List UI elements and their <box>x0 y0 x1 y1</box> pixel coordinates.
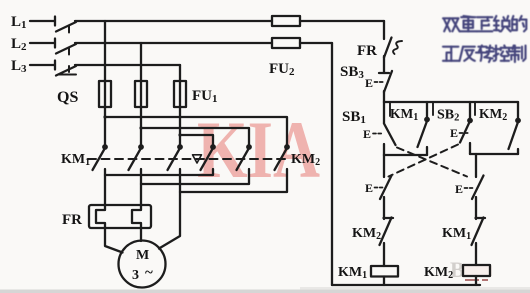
interlock dashed link SB1 to SB1-NC <box>397 148 467 177</box>
contactor KM2 aux NO self-hold contact <box>509 102 521 154</box>
contactor KM1 aux NO self-hold contact <box>418 102 430 155</box>
wire L3 to phase3 drop <box>75 64 180 66</box>
wire FR to SB3 <box>383 56 385 73</box>
wire L2 to FU2b <box>75 42 272 44</box>
wire KM1 coil to bottom bus <box>383 277 385 286</box>
node L1 <box>30 17 55 26</box>
wire branch1 bar to SB2 NC <box>383 155 385 177</box>
wire L2 blade (QS pole 2) <box>56 44 76 54</box>
wire KM2 pole3 bottom to phase3 <box>180 169 287 192</box>
wire FR heater2 to motor V <box>140 228 142 241</box>
wire KM1NC to KM2 coil <box>475 243 477 265</box>
fuse FU2b <box>272 38 300 48</box>
FR heater element 2 <box>132 205 141 228</box>
svg-text:QS: QS <box>57 89 78 106</box>
contactor KM1 main contact pole3 <box>168 144 183 170</box>
svg-text:E: E <box>455 182 463 196</box>
disconnector QS linkage <box>59 26 77 75</box>
svg-text:3: 3 <box>132 268 139 283</box>
fuse FU1c <box>174 81 186 107</box>
wire KM2 coil to bottom bus <box>475 276 477 285</box>
button SB1 NC interlock contact (branch2) <box>465 176 484 200</box>
contactor KM2 NC interlock contact (branch1) <box>380 218 394 246</box>
button SB2 NC interlock contact (branch1) <box>375 176 392 200</box>
photo bottom edge shading <box>0 290 530 293</box>
wire phase3 FU1c to KM1 contact <box>179 107 181 145</box>
bus tick separators <box>390 102 475 116</box>
FR heater element 1 <box>96 205 105 228</box>
coil KM1 <box>371 266 398 277</box>
wire phase1 to FR heater1 <box>104 169 106 205</box>
contactor KM1 NC interlock contact (branch2) <box>472 218 486 246</box>
wire phase1 FU1a to KM1 contact <box>104 107 106 145</box>
svg-text:E: E <box>365 181 373 195</box>
fuse FU2a <box>272 16 300 26</box>
wire phase3 to motor W <box>159 169 180 249</box>
svg-text:E: E <box>363 127 371 141</box>
fuse FU1b <box>135 81 147 107</box>
wire branch2 to KM1 NC <box>475 197 477 219</box>
wire L2 feed to KM2 pole2 <box>141 128 249 145</box>
wire L1 to FU2a <box>75 20 272 22</box>
wire L3 blade (QS pole 3) <box>56 66 76 76</box>
svg-text:~: ~ <box>145 265 153 281</box>
wire phase2 to FR heater2 <box>140 169 142 205</box>
caption line2 正反转控制 <box>443 47 460 61</box>
wire KM2NC to KM1 coil <box>383 243 385 266</box>
wire SB2/KM2aux parallel bar <box>470 153 518 155</box>
svg-text:E: E <box>365 76 373 90</box>
node L3 <box>30 61 55 70</box>
wire SB1/KM1aux parallel bar <box>384 154 427 156</box>
control top bus <box>384 101 518 103</box>
wire phase3 drop <box>179 65 181 81</box>
junction dots on phase drops <box>103 115 181 136</box>
wire SB3 to bus <box>383 91 385 102</box>
svg-text:FR: FR <box>357 43 377 59</box>
caption line1 双重互锁的 <box>443 16 526 62</box>
wire FU2b to left control drop <box>300 42 332 44</box>
wire control phase A drop <box>383 21 385 39</box>
contactor KM1 main contact pole2 <box>129 144 144 170</box>
wire phase2 FU1b to KM1 contact <box>140 107 142 145</box>
linkage marker triangle <box>193 155 202 163</box>
wire branch1 to KM2 NC <box>383 197 385 219</box>
thermal relay FR heater box <box>89 205 151 228</box>
stop button SB3 NC contact <box>375 71 393 92</box>
wire branch2 bar to SB1 NC <box>475 154 477 177</box>
wire phase2 drop <box>140 43 142 81</box>
contactor KM2 main contact pole1 <box>201 144 216 170</box>
wire L1 feed to KM2 pole3 <box>105 117 287 145</box>
control bottom bus <box>332 284 480 286</box>
coil KM2 <box>463 265 490 276</box>
wire phase1 drop <box>104 21 106 81</box>
wire FU2a to control corner <box>300 20 384 22</box>
control left return drop <box>331 43 333 285</box>
svg-text:M: M <box>136 248 149 263</box>
wire L1 blade (QS pole 1) <box>56 22 76 32</box>
wire KM2 pole1 bottom to phase1 <box>105 169 213 175</box>
start button SB1 NO contact <box>373 102 396 155</box>
node L2 <box>30 39 55 48</box>
motor M 3~ <box>119 241 166 288</box>
watermark fragment near KM2 coil <box>450 257 492 282</box>
mechanical link dashed line KM1-KM2 <box>88 158 289 160</box>
contactor KM2 main contact pole3 <box>275 144 290 170</box>
wire FR heater1 to motor U <box>105 228 123 253</box>
svg-text:FR: FR <box>62 212 82 228</box>
thermal relay FR NC contact <box>384 38 402 58</box>
interlock dashed link SB2 to SB2-NC <box>389 145 459 177</box>
fuse FU1a <box>99 81 111 107</box>
wire L3 feed to KM2 pole1 <box>180 135 213 145</box>
start button SB2 NO contact <box>460 102 473 154</box>
contactor KM1 main contact pole1 <box>93 144 108 170</box>
svg-text:E: E <box>450 126 458 140</box>
contactor KM2 main contact pole2 <box>237 144 252 170</box>
wire KM2 pole2 bottom to phase2 <box>141 169 249 184</box>
